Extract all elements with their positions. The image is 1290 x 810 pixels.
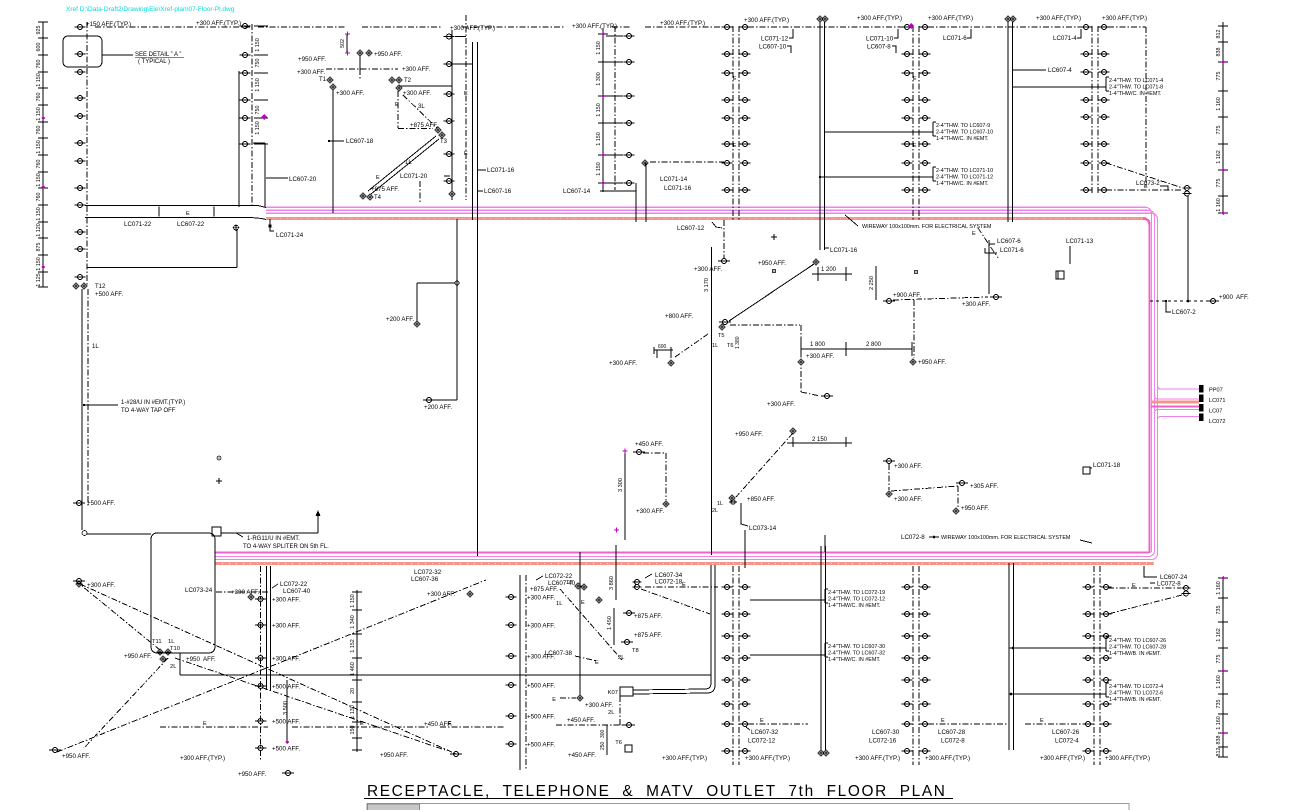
- label LC071-13: [1056, 238, 1094, 279]
- svg-text:+450 AFF.: +450 AFF.: [568, 752, 596, 759]
- svg-text:+300 AFF.(TYP.): +300 AFF.(TYP.): [1102, 15, 1147, 22]
- riser conduit pair x820: [817, 16, 829, 222]
- svg-text:+500 AFF.: +500 AFF.: [87, 500, 115, 507]
- svg-text:+300 AFF.: +300 AFF.: [272, 623, 300, 630]
- outlet +900 AFF row: [883, 292, 1002, 308]
- svg-text:( TYPICAL ): ( TYPICAL ): [138, 59, 170, 65]
- svg-text:2-4"THW. TO LC071-8: 2-4"THW. TO LC071-8: [1109, 85, 1163, 91]
- wire 2L drop: [608, 696, 620, 725]
- wire 1L left: [82, 289, 99, 530]
- svg-text:LC607-32: LC607-32: [751, 729, 779, 736]
- svg-text:3L: 3L: [418, 104, 425, 110]
- wire diagonal X5: [82, 586, 160, 650]
- outlet +500 AFF left: [73, 500, 115, 507]
- svg-text:+300 AFF.(TYP.): +300 AFF.(TYP.): [925, 755, 970, 762]
- svg-text:E: E: [552, 697, 556, 703]
- labels LC071-12 LC607-10: [759, 29, 793, 53]
- labels LC071-14 LC071-16: [660, 176, 692, 192]
- svg-text:T12: T12: [95, 284, 106, 290]
- outlet chain I x629: [606, 26, 635, 190]
- outlet +875 a: [623, 611, 662, 621]
- svg-text:2 250: 2 250: [869, 276, 875, 290]
- svg-text:K07: K07: [608, 690, 618, 696]
- svg-text:LC072-8: LC072-8: [941, 738, 965, 745]
- label LC607-20: [266, 177, 288, 179]
- labels under chain 736: [746, 727, 779, 745]
- svg-text:+300 AFF.: +300 AFF.: [894, 496, 922, 503]
- outlet +300 on drop: [798, 353, 835, 365]
- svg-text:TO 4-WAY TAP OFF: TO 4-WAY TAP OFF: [121, 408, 176, 414]
- svg-text:+875 AFF.: +875 AFF.: [410, 122, 438, 129]
- svg-text:LC072-22: LC072-22: [280, 581, 308, 588]
- svg-text:LC072-8: LC072-8: [901, 534, 925, 541]
- MATV outlet pair right: [1183, 186, 1192, 196]
- svg-text:+200 AFF.: +200 AFF.: [386, 316, 414, 323]
- svg-text:1 160: 1 160: [1216, 716, 1222, 730]
- svg-text:LC607-6: LC607-6: [997, 238, 1021, 245]
- svg-text:+300 AFF.: +300 AFF.: [403, 90, 431, 97]
- svg-text:+300 AFF.: +300 AFF.: [402, 66, 430, 73]
- telephone outlet T1 group: [297, 69, 364, 213]
- svg-text:+900 AFF.: +900 AFF.: [1219, 294, 1249, 301]
- svg-text:T4: T4: [374, 195, 382, 201]
- wire chain 285 top labels: [185, 581, 311, 600]
- svg-text:1 150: 1 150: [36, 257, 42, 271]
- room outline bottom-left: [151, 533, 215, 653]
- svg-text:E: E: [913, 76, 917, 82]
- outlet chain bottom x736: [722, 566, 751, 765]
- outlet chain F x736: [722, 25, 751, 222]
- wall line left column: [239, 71, 265, 207]
- svg-text:1 150: 1 150: [596, 162, 602, 176]
- outlet +305 k: [891, 481, 998, 492]
- svg-text:LC071-16: LC071-16: [830, 247, 858, 254]
- svg-text:760: 760: [36, 60, 42, 69]
- svg-text:LC071-22: LC071-22: [124, 221, 152, 228]
- outlet X top-left: [73, 579, 85, 584]
- feeder lines bottom notes: [750, 600, 825, 655]
- outlet chain G x916: [902, 25, 931, 222]
- outlet +300 elbow: [767, 392, 833, 408]
- room wall L below: [87, 230, 237, 268]
- svg-text:LC072-32: LC072-32: [414, 569, 442, 576]
- svg-text:+300 AFF.: +300 AFF.: [527, 595, 555, 602]
- svg-text:LC607-12: LC607-12: [677, 225, 705, 232]
- svg-text:+300 AFF.: +300 AFF.: [527, 623, 555, 630]
- svg-text:+500 AFF.: +500 AFF.: [527, 683, 555, 690]
- panel LC071: [1199, 395, 1204, 403]
- label LC607-2: [1165, 300, 1196, 316]
- svg-text:LC071-24: LC071-24: [276, 232, 304, 239]
- outlet +200 AFF left: [76, 581, 116, 589]
- wire 1L diagonal conduit: [368, 136, 439, 194]
- corridor vertical x825 up: [824, 535, 826, 552]
- feeder note LC607-26/28: [1106, 637, 1166, 657]
- corridor column line x711: [711, 247, 713, 555]
- panel LC072: [1199, 414, 1204, 422]
- svg-text:E: E: [448, 721, 452, 727]
- svg-text:LC071-10: LC071-10: [866, 36, 894, 43]
- svg-text:E: E: [733, 76, 737, 82]
- telephone outlet T5 cluster: [665, 313, 741, 349]
- svg-text:PP07: PP07: [1209, 388, 1223, 394]
- svg-text:2-4"THW. TO LC072-19: 2-4"THW. TO LC072-19: [828, 590, 885, 596]
- label LC071-22: [124, 207, 159, 229]
- outlet +950 drop: [910, 300, 947, 366]
- telephone outlet T3: [435, 127, 448, 145]
- svg-text:775: 775: [1216, 72, 1222, 81]
- svg-text:1 162: 1 162: [1216, 628, 1222, 642]
- svg-text:LC072: LC072: [1209, 419, 1225, 425]
- label LC071-16 on riser: [820, 222, 858, 254]
- svg-text:+300 AFF.(TYP.): +300 AFF.(TYP.): [662, 755, 707, 762]
- svg-text:+300 AFF.: +300 AFF.: [806, 353, 834, 360]
- svg-text:2L: 2L: [618, 655, 625, 661]
- svg-text:+950 AFF.: +950 AFF.: [238, 771, 266, 778]
- svg-text:812: 812: [1216, 748, 1222, 757]
- svg-text:3 860: 3 860: [609, 576, 615, 590]
- plus mark a: [771, 234, 777, 240]
- svg-text:SEE DETAIL ” A ”: SEE DETAIL ” A ”: [135, 52, 181, 58]
- svg-text:E: E: [760, 718, 764, 724]
- svg-text:2-4"THW. TO LC071-10: 2-4"THW. TO LC071-10: [936, 168, 993, 174]
- feeder note LC072-4/6: [1106, 683, 1163, 703]
- svg-text:2-4"THW. TO LC607-10: 2-4"THW. TO LC607-10: [936, 130, 993, 136]
- svg-text:1L: 1L: [556, 601, 563, 607]
- svg-text:LC072-18: LC072-18: [655, 579, 683, 586]
- svg-text:+300 AFF.: +300 AFF.: [427, 591, 455, 598]
- svg-text:2-4"THW. TO LC607-32: 2-4"THW. TO LC607-32: [828, 651, 885, 657]
- svg-text:+500 AFF.: +500 AFF.: [527, 714, 555, 721]
- wire diagonal X2: [57, 580, 486, 752]
- svg-text:775: 775: [1216, 179, 1222, 188]
- svg-text:1 450: 1 450: [607, 616, 613, 630]
- feeder note LC071-4/8: [1106, 77, 1163, 97]
- dimension ruler mid-top: [596, 28, 608, 192]
- svg-text:1L: 1L: [92, 344, 99, 350]
- svg-text:+300 AFF.(TYP.): +300 AFF.(TYP.): [1105, 755, 1150, 762]
- wire diagonal to T6 pair: [736, 433, 793, 497]
- svg-text:LC607-30: LC607-30: [872, 729, 900, 736]
- svg-text:LC607-26: LC607-26: [1052, 729, 1080, 736]
- svg-text:3 170: 3 170: [704, 278, 710, 292]
- note 4-way tap off: [83, 400, 185, 414]
- label LC071-20: [400, 173, 452, 204]
- svg-text:925: 925: [36, 26, 42, 35]
- svg-text:+450 AFF.: +450 AFF.: [567, 717, 595, 724]
- dimension ruler right-top: [1216, 22, 1228, 215]
- labels LC607-6 LC071-6: [985, 238, 1024, 254]
- label LC071-18 box: [1083, 462, 1121, 474]
- svg-text:T11: T11: [152, 639, 162, 645]
- svg-text:LC607-4: LC607-4: [1048, 67, 1072, 74]
- svg-text:T1: T1: [319, 77, 327, 83]
- svg-text:760: 760: [36, 193, 42, 202]
- wire 3L diagonal: [403, 95, 438, 129]
- labels T7 cluster: [530, 580, 622, 660]
- wire dash-dot from T5: [730, 325, 801, 392]
- svg-text:+500 AFF.: +500 AFF.: [95, 291, 123, 298]
- svg-text:T6: T6: [615, 740, 622, 746]
- svg-text:1 152: 1 152: [350, 639, 356, 653]
- svg-text:1 300: 1 300: [596, 72, 602, 86]
- dimension 1800 2800 line: [801, 342, 912, 356]
- svg-text:735: 735: [1216, 606, 1222, 615]
- svg-text:2-4"THW. TO LC607-30: 2-4"THW. TO LC607-30: [828, 644, 885, 650]
- svg-text:760: 760: [36, 126, 42, 135]
- svg-text:+300 AFF.: +300 AFF.: [272, 597, 300, 604]
- svg-text:2L: 2L: [170, 664, 177, 670]
- magenta accent top: [908, 23, 914, 29]
- svg-text:T7: T7: [566, 580, 573, 586]
- labels LC071-10 LC607-8: [866, 29, 898, 53]
- svg-text:838: 838: [1216, 736, 1222, 745]
- svg-text:1 150: 1 150: [596, 103, 602, 117]
- dimension ruler right-bottom: [1216, 576, 1228, 757]
- svg-text:E: E: [186, 211, 190, 217]
- svg-text:+875 AFF.: +875 AFF.: [634, 613, 662, 620]
- svg-text:+300 AFF.: +300 AFF.: [962, 301, 990, 308]
- svg-text:LC607-18: LC607-18: [346, 138, 374, 145]
- svg-text:600: 600: [36, 43, 42, 52]
- svg-text:+950 AFF.: +950 AFF.: [298, 56, 326, 63]
- svg-text:+300 AFF.: +300 AFF.: [609, 360, 637, 367]
- svg-text:1 460: 1 460: [350, 662, 356, 676]
- telephone outlet T8 bottom: [568, 740, 632, 759]
- svg-text:+875 AFF.: +875 AFF.: [371, 186, 399, 193]
- svg-text:1 150: 1 150: [596, 132, 602, 146]
- label LC071-4: [1053, 29, 1081, 42]
- feeder note LC072-19/12: [825, 589, 885, 609]
- svg-text:+300 AFF.(TYP.): +300 AFF.(TYP.): [855, 755, 900, 762]
- svg-text:1 160: 1 160: [1216, 581, 1222, 595]
- TK07 box: [608, 687, 633, 696]
- svg-text:1-RG11/U IN #EMT.: 1-RG11/U IN #EMT.: [247, 536, 300, 542]
- svg-text:+950 AFF.: +950 AFF.: [380, 752, 408, 759]
- svg-text:+305 AFF.: +305 AFF.: [970, 483, 998, 490]
- svg-text:300: 300: [600, 729, 606, 738]
- svg-text:1-4"THW/C. IN #EMT.: 1-4"THW/C. IN #EMT.: [936, 181, 989, 187]
- outlet chain H x1095: [1081, 25, 1110, 196]
- wire diagonal to chain F bottom: [641, 589, 710, 614]
- svg-text:LC607-38: LC607-38: [545, 650, 573, 657]
- wire diagonal X3: [84, 658, 168, 748]
- svg-text:LC607-16: LC607-16: [484, 188, 512, 195]
- svg-text:2-4"THW. TO LC607-26: 2-4"THW. TO LC607-26: [1109, 638, 1166, 644]
- svg-text:1L: 1L: [405, 160, 412, 166]
- svg-text:+950 AFF.: +950 AFF.: [374, 51, 402, 58]
- svg-text:T3: T3: [440, 139, 448, 145]
- outlet chain A x80: [75, 22, 88, 285]
- svg-text:+500 AFF.: +500 AFF.: [272, 746, 300, 753]
- svg-text:+500 AFF.: +500 AFF.: [527, 742, 555, 749]
- svg-text:Xref D:\Data-Draft2\Drawing\El: Xref D:\Data-Draft2\Drawing\Ele\Xref-pla…: [66, 6, 235, 13]
- svg-text:750: 750: [255, 59, 261, 68]
- svg-text:1-4"THW/B. IN #EMT.: 1-4"THW/B. IN #EMT.: [1109, 697, 1161, 703]
- svg-text:20: 20: [350, 688, 356, 694]
- dimension 600 with outlet: [609, 334, 708, 367]
- svg-text:+300 AFF.: +300 AFF.: [585, 702, 613, 709]
- svg-text:1 162: 1 162: [1216, 150, 1222, 164]
- wire diagonal X1: [80, 584, 456, 754]
- svg-text:T6: T6: [727, 343, 734, 349]
- labels under chain 280: [180, 755, 294, 778]
- svg-text:+875 AFF.: +875 AFF.: [530, 586, 558, 593]
- svg-text:+950 AFF.: +950 AFF.: [124, 653, 152, 660]
- transformer pair +950 x365: [298, 32, 402, 70]
- svg-text:T10: T10: [170, 646, 180, 652]
- svg-text:1 150: 1 150: [350, 594, 356, 608]
- outlet at room corner: [82, 531, 151, 536]
- riser conduit pair x1008: [1005, 16, 1017, 222]
- svg-text:LC071-20: LC071-20: [400, 173, 428, 180]
- svg-text:1 150: 1 150: [255, 38, 261, 52]
- feeder line to note 2: [820, 176, 933, 178]
- svg-text:1 150: 1 150: [36, 107, 42, 121]
- svg-text:LC607-22: LC607-22: [177, 221, 205, 228]
- outlet +450 row: [556, 717, 635, 728]
- svg-text:+300 AFF.: +300 AFF.: [767, 401, 795, 408]
- MATV pair bottom-right: [1108, 566, 1191, 614]
- wire to antenna arrow: [221, 510, 321, 533]
- feeder note LC071-10/12: [933, 167, 993, 187]
- svg-text:LC071-16: LC071-16: [664, 185, 692, 192]
- wall top-left horizontal: [85, 206, 266, 220]
- svg-text:250: 250: [600, 741, 606, 750]
- svg-text:1 150: 1 150: [36, 140, 42, 154]
- svg-text:+300 AFF.: +300 AFF.: [694, 266, 722, 273]
- svg-text:E: E: [972, 231, 976, 237]
- svg-text:E: E: [595, 660, 599, 666]
- label LC071-6: [943, 29, 971, 42]
- outlet +200 AFF a: [386, 316, 420, 327]
- svg-text:1L: 1L: [712, 343, 718, 349]
- outlet X bottom-left: [49, 748, 90, 761]
- corridor wall highlight (magenta lines): [215, 207, 1158, 563]
- labels chain 525 top: [411, 569, 576, 598]
- svg-text:2L: 2L: [712, 508, 718, 514]
- riser drop x457 with +200 outlets: [417, 219, 459, 400]
- see detail note: [102, 52, 184, 65]
- svg-text:+300 AFF.(TYP.): +300 AFF.(TYP.): [1040, 755, 1085, 762]
- svg-text:+300 AFF.(TYP.): +300 AFF.(TYP.): [1036, 15, 1081, 22]
- junction outlet +300 E: [552, 695, 613, 709]
- svg-text:LC073-14: LC073-14: [749, 525, 777, 532]
- outlet chain bottom x916: [902, 566, 931, 765]
- outlet at chain D bottom: [449, 191, 456, 198]
- svg-text:1 800: 1 800: [810, 342, 826, 348]
- label LC073-14: [741, 503, 777, 532]
- label LC073-2: [1136, 180, 1168, 190]
- svg-text:1 125: 1 125: [36, 273, 42, 287]
- svg-text:1 380: 1 380: [735, 336, 741, 349]
- outlet chain D x452: [444, 15, 467, 200]
- svg-text:LC073-24: LC073-24: [185, 587, 213, 594]
- svg-text:+450 AFF.: +450 AFF.: [635, 441, 663, 448]
- outlet +850 pair: [712, 495, 775, 514]
- svg-text:LC073-2: LC073-2: [1136, 180, 1160, 187]
- dimension 3300 rotated: [614, 449, 628, 541]
- junction outlet x237: [233, 224, 240, 231]
- svg-text:LC072-4: LC072-4: [1055, 738, 1079, 745]
- svg-text:LC607-40: LC607-40: [283, 588, 311, 595]
- svg-text:1 150: 1 150: [36, 173, 42, 187]
- label LC607-14: [563, 188, 636, 195]
- label LC607-12: [677, 222, 722, 232]
- svg-text:3 500: 3 500: [283, 701, 289, 715]
- svg-text:+200 AFF.: +200 AFF.: [424, 404, 452, 411]
- svg-text:LC071: LC071: [1209, 398, 1225, 404]
- svg-text:E: E: [376, 175, 380, 181]
- svg-text:+950 AFF.: +950 AFF.: [918, 359, 946, 366]
- corridor outlet +300 x724: [694, 220, 730, 273]
- svg-text:+300 AFF.: +300 AFF.: [336, 90, 364, 97]
- dimension 3860 rotated: [609, 545, 616, 600]
- svg-text:E: E: [1040, 718, 1044, 724]
- wire diagonal X4: [175, 658, 445, 750]
- dims 300 250: [600, 725, 607, 755]
- wireway note top: [845, 215, 992, 230]
- svg-text:LC071-4: LC071-4: [1053, 35, 1077, 42]
- svg-text:812: 812: [1216, 30, 1222, 39]
- svg-text:LC072-22: LC072-22: [545, 573, 573, 580]
- label LC071-16: [477, 167, 515, 174]
- svg-text:+300 AFF.(TYP.): +300 AFF.(TYP.): [744, 17, 789, 24]
- labels LC607-34 LC072-18: [633, 572, 719, 589]
- room boundary line: [180, 674, 711, 676]
- svg-text:2-4"THW. TO LC071-12: 2-4"THW. TO LC071-12: [936, 175, 993, 181]
- splitter box: [212, 527, 221, 536]
- svg-text:E: E: [203, 721, 207, 727]
- svg-text:735: 735: [1216, 700, 1222, 709]
- labels mid chains: [869, 729, 1080, 745]
- drawing title: [364, 783, 953, 800]
- svg-text:+300 AFF.: +300 AFF.: [272, 656, 300, 663]
- svg-text:2-4"THW. TO LC607-9: 2-4"THW. TO LC607-9: [936, 123, 990, 129]
- dimension ruler mid-bottom: [350, 590, 362, 752]
- telephone outlet T11 T10 cluster: [124, 639, 216, 670]
- outlet +450 left: [633, 441, 669, 515]
- wireway note bottom: [901, 534, 1092, 543]
- svg-text:+300 AFF.(TYP.): +300 AFF.(TYP.): [196, 20, 241, 27]
- svg-text:2-4"THW. TO LC607-28: 2-4"THW. TO LC607-28: [1109, 645, 1166, 651]
- svg-text:LC072-8: LC072-8: [1157, 581, 1181, 588]
- svg-text:T8: T8: [632, 648, 639, 654]
- svg-text:1 340: 1 340: [350, 615, 356, 629]
- note 4-way splitter: [236, 533, 329, 550]
- dimension 2250 rotated: [869, 266, 876, 300]
- outlet X bottom-right: [380, 752, 462, 760]
- svg-text:3 300: 3 300: [618, 478, 624, 492]
- svg-text:2 800: 2 800: [866, 342, 882, 348]
- panel LC07: [1199, 404, 1204, 412]
- svg-text:1 150: 1 150: [255, 121, 261, 135]
- svg-text:LC071-12: LC071-12: [761, 36, 789, 43]
- svg-text:775: 775: [1216, 655, 1222, 664]
- svg-text:1-4"THW/C. IN #EMT.: 1-4"THW/C. IN #EMT.: [828, 657, 881, 663]
- svg-text:+300 AFF.: +300 AFF.: [894, 463, 922, 470]
- svg-text:LC072-12: LC072-12: [748, 738, 776, 745]
- svg-text:1 160: 1 160: [1216, 198, 1222, 212]
- outlet +875 b: [618, 632, 662, 661]
- svg-text:LC607-36: LC607-36: [411, 576, 439, 583]
- svg-text:1-4"THW/C. IN #EMT.: 1-4"THW/C. IN #EMT.: [828, 603, 881, 609]
- svg-text:LC071-18: LC071-18: [1093, 462, 1121, 469]
- outlet +200 AFF b: [423, 398, 457, 412]
- feeder note LC607-30/32: [825, 643, 885, 663]
- svg-text:E: E: [941, 718, 945, 724]
- svg-text:1L: 1L: [168, 639, 175, 645]
